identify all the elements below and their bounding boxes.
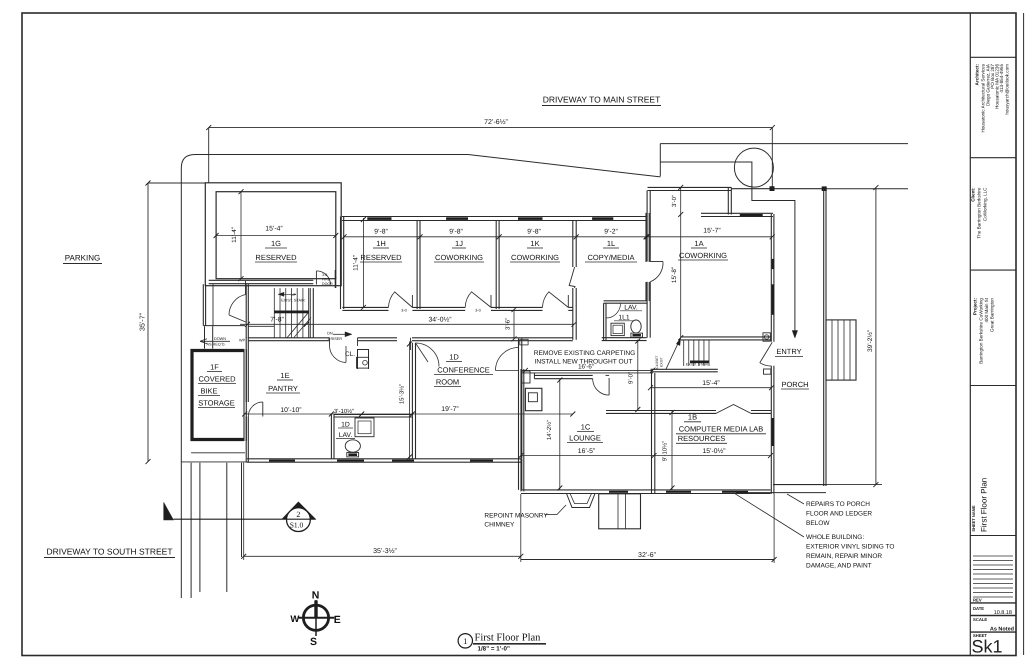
dimension 72ft-6half top <box>209 127 773 129</box>
dim 15ft-4 hall to porch <box>651 387 772 389</box>
svg-text:COVERED: COVERED <box>198 375 236 384</box>
windows in east wall <box>772 259 774 269</box>
svg-text:PORCH: PORCH <box>781 380 808 389</box>
svg-text:39’-2½”: 39’-2½” <box>867 330 874 352</box>
svg-text:CL.: CL. <box>345 351 355 358</box>
door 1H <box>411 295 413 307</box>
electrical panel 1A <box>763 333 770 341</box>
stair2 rail <box>666 338 681 369</box>
dim 7ft-8 and 34ft-0half hall <box>240 323 574 325</box>
svg-text:15’-7”: 15’-7” <box>703 228 721 235</box>
porch north edge <box>731 188 826 190</box>
svg-text:N: N <box>312 589 320 601</box>
svg-text:DOOR: DOOR <box>322 282 333 286</box>
svg-text:1/8” = 1’-0”: 1/8” = 1’-0” <box>478 646 511 653</box>
svg-text:FIRE: FIRE <box>322 278 331 282</box>
closet door swing <box>330 346 347 363</box>
svg-text:COWORKING: COWORKING <box>679 251 727 260</box>
svg-text:PANTRY: PANTRY <box>268 384 298 393</box>
1G south wall <box>209 279 314 281</box>
svg-text:CoWorking, LLC: CoWorking, LLC <box>983 187 988 221</box>
main south wall with windows <box>521 489 771 491</box>
stair up arrow and text <box>278 293 296 295</box>
svg-text:DRIVEWAY TO SOUTH STREET: DRIVEWAY TO SOUTH STREET <box>46 547 172 557</box>
porch top extension line east <box>826 188 908 190</box>
lav toilet <box>631 320 641 333</box>
1D east door <box>496 348 519 371</box>
north site line at top of turnaround <box>660 143 908 145</box>
svg-text:EXIST. STAIR: EXIST. STAIR <box>686 362 709 366</box>
svg-text:First Floor Plan: First Floor Plan <box>475 633 542 644</box>
svg-text:E: E <box>334 614 341 626</box>
dim 9ft-0 <box>637 340 639 411</box>
svg-text:413-854-4955: 413-854-4955 <box>999 64 1004 93</box>
svg-text:1G: 1G <box>271 239 281 248</box>
corridor south wall <box>249 337 330 339</box>
svg-text:WHOLE BUILDING:: WHOLE BUILDING: <box>806 534 864 541</box>
wall 1L-1A <box>645 213 647 262</box>
windows in suites north wall <box>367 217 391 220</box>
svg-text:32’-6”: 32’-6” <box>638 552 657 559</box>
svg-text:1K: 1K <box>530 239 539 248</box>
stair rail diagonals <box>287 313 309 339</box>
dim 15ft-3half <box>408 342 410 460</box>
pantry west wall <box>245 338 247 403</box>
svg-text:16’-6”: 16’-6” <box>578 364 594 371</box>
dim 32ft-6 <box>521 559 774 561</box>
room 1G outer wall <box>205 183 341 286</box>
wall 1G-1H <box>340 217 342 310</box>
fire door at 1G south-east <box>315 271 317 285</box>
svg-text:1 RISER: 1 RISER <box>327 337 342 341</box>
svg-text:DRIVEWAY TO MAIN STREET: DRIVEWAY TO MAIN STREET <box>543 95 661 105</box>
svg-text:housyarch@outlook.com: housyarch@outlook.com <box>1005 64 1010 115</box>
svg-text:3-0: 3-0 <box>401 308 407 312</box>
svg-text:EXIST: EXIST <box>660 357 664 367</box>
svg-text:1D: 1D <box>449 353 459 362</box>
svg-text:1L: 1L <box>607 239 615 248</box>
west porch left of stair <box>202 284 204 325</box>
svg-text:11’-4”: 11’-4” <box>353 255 360 271</box>
hall south wall / dim 16-6 <box>521 369 653 371</box>
svg-text:Great Barrington: Great Barrington <box>990 298 995 332</box>
dim 9ft-10half <box>671 411 673 490</box>
dim 15ft-7 <box>647 236 772 238</box>
svg-text:REPOINT MASONRY: REPOINT MASONRY <box>484 513 548 520</box>
corridor doors <box>410 338 412 350</box>
building east wall <box>770 214 772 342</box>
svg-text:First Floor Plan: First Floor Plan <box>980 478 989 532</box>
wall between 1G block and stair: west jog <box>335 277 337 288</box>
svg-text:COPY/MEDIA: COPY/MEDIA <box>587 253 634 262</box>
1A door swing <box>650 261 663 263</box>
svg-text:DN: DN <box>327 332 333 336</box>
1A south wall <box>681 336 772 338</box>
main stair treads <box>273 288 275 338</box>
porch south edge <box>773 484 826 486</box>
svg-text:REMOVE EXISTING CARPETING: REMOVE EXISTING CARPETING <box>534 350 636 357</box>
svg-text:The Barrington Berkshire: The Barrington Berkshire <box>977 187 982 239</box>
dimension 11ft-4 in 1G <box>240 192 242 279</box>
svg-text:72’-6½”: 72’-6½” <box>484 119 508 126</box>
room 1G inner wall <box>216 192 336 279</box>
svg-text:3-0: 3-0 <box>475 308 481 312</box>
1D lav sink <box>355 418 374 437</box>
svg-text:1C: 1C <box>581 423 591 432</box>
suites north wall <box>342 216 647 218</box>
west driveway strip lines <box>190 463 192 598</box>
1D lav toilet <box>345 440 360 452</box>
svg-text:16’-5”: 16’-5” <box>578 448 596 455</box>
svg-text:ENTRY: ENTRY <box>776 347 801 356</box>
chimney bay south <box>567 494 596 508</box>
svg-text:CONFERENCE: CONFERENCE <box>437 366 490 375</box>
wall 1E-1D <box>411 343 413 459</box>
svg-text:SCALE: SCALE <box>973 617 987 622</box>
svg-text:COMPUTER MEDIA LAB: COMPUTER MEDIA LAB <box>679 425 764 434</box>
1A north wall with window <box>701 212 773 214</box>
svg-text:34’-0½”: 34’-0½” <box>428 316 452 323</box>
svg-text:9’-2”: 9’-2” <box>604 229 618 236</box>
ramp rails <box>204 326 206 348</box>
svg-text:Sk1: Sk1 <box>972 637 1003 657</box>
stair2 treads near entry <box>683 340 685 366</box>
door 1J <box>490 295 492 307</box>
svg-text:1D: 1D <box>341 422 350 429</box>
north arrow compass <box>299 600 335 636</box>
small door panel right of hall wall <box>520 339 528 345</box>
svg-text:ROOM: ROOM <box>436 378 459 387</box>
dimension 39ft-2half right <box>875 188 877 485</box>
svg-text:2: 2 <box>296 510 300 519</box>
1A alcove east wall <box>727 187 729 214</box>
svg-text:Client:: Client: <box>971 187 976 202</box>
svg-text:RESOURCES: RESOURCES <box>678 434 726 443</box>
svg-text:14’-2½”: 14’-2½” <box>546 420 553 440</box>
svg-text:REMAIN, REPAIR MINOR: REMAIN, REPAIR MINOR <box>806 553 882 560</box>
wall 1J-1K <box>495 221 497 310</box>
svg-text:BIKE: BIKE <box>200 387 217 396</box>
1C west wall <box>520 369 522 491</box>
steps below 1F <box>191 452 245 454</box>
wall 1D-1C <box>518 339 520 459</box>
svg-text:LAV.: LAV. <box>339 432 353 439</box>
1A west wall with door <box>646 191 648 262</box>
wall under stair2 <box>651 368 718 370</box>
svg-text:Barrington Berkshire CoWorki: Barrington Berkshire CoWorking <box>979 298 984 364</box>
lav sink <box>611 323 624 335</box>
dim 35ft-3half <box>244 555 521 557</box>
svg-text:SHEET NAME: SHEET NAME <box>971 505 976 532</box>
svg-text:CLOSET: CLOSET <box>655 355 659 368</box>
svg-text:EXTERIOR VINYL SIDING TO: EXTERIOR VINYL SIDING TO <box>806 544 894 551</box>
svg-text:3’-0”: 3’-0” <box>671 195 678 207</box>
property line west + north with rounded corner <box>181 155 660 599</box>
ramp down-as-reqd <box>200 340 230 342</box>
svg-text:EXIST. STAIR: EXIST. STAIR <box>281 299 305 303</box>
chimney shaft box <box>525 388 542 410</box>
south stoop <box>599 494 641 529</box>
svg-text:Architect:: Architect: <box>975 64 980 86</box>
lav 1L1 walls <box>604 300 648 302</box>
dim 3ft-6 at hall right <box>513 310 515 339</box>
svg-text:1F: 1F <box>210 363 219 372</box>
lav 1D partition <box>330 415 332 459</box>
1D door top-left <box>416 343 440 367</box>
dimension 15ft-4 in 1G <box>216 235 336 237</box>
entry path with arrow <box>660 162 795 333</box>
1C north wall and door <box>534 374 592 376</box>
svg-text:9’-8”: 9’-8” <box>527 229 541 236</box>
svg-text:DOWN: DOWN <box>214 337 226 341</box>
stair west wall <box>245 284 247 338</box>
mid chain dim 16-5 15-0half <box>521 455 771 457</box>
svg-text:CHIMNEY: CHIMNEY <box>484 522 515 529</box>
1A alcove north wall <box>648 186 732 188</box>
svg-text:W: W <box>290 614 299 625</box>
svg-text:3’-6”: 3’-6” <box>505 318 512 330</box>
svg-text:35’-3½”: 35’-3½” <box>373 548 397 555</box>
entry door in east wall <box>760 342 772 362</box>
dim 11ft-4 for 1H <box>362 218 364 307</box>
svg-text:19’-7”: 19’-7” <box>441 406 459 413</box>
door 1K <box>567 295 569 307</box>
wall east of fire door <box>334 270 336 288</box>
west entry door swing <box>245 281 247 295</box>
svg-text:REV: REV <box>973 598 982 603</box>
svg-text:STORAGE: STORAGE <box>198 399 235 408</box>
pantry block south wall with windows <box>247 458 521 460</box>
1F covered bike storage (new walls) <box>192 351 244 440</box>
driveway turnaround circle <box>734 148 773 187</box>
section marker 2/S1.0 <box>282 502 316 519</box>
svg-text:AS REQ’D.: AS REQ’D. <box>207 343 226 347</box>
svg-text:RESERVED: RESERVED <box>255 253 297 262</box>
svg-text:PARKING: PARKING <box>65 254 100 263</box>
bottom chain dims 10-10 3-10 19-7 <box>245 413 573 415</box>
svg-text:400 Main St: 400 Main St <box>984 297 989 322</box>
svg-text:15’-4”: 15’-4” <box>702 380 720 387</box>
dimension 35ft-7 left <box>147 183 149 462</box>
svg-text:1: 1 <box>463 636 467 646</box>
stair landing edge <box>249 325 275 327</box>
svg-text:3-0: 3-0 <box>322 273 327 277</box>
svg-text:1A: 1A <box>694 239 703 248</box>
svg-text:LAV.: LAV. <box>624 304 638 311</box>
svg-text:9’-8”: 9’-8” <box>449 229 463 236</box>
svg-text:7’-8”: 7’-8” <box>270 316 284 323</box>
dim 3ft-0 and 15ft-8 <box>680 187 682 337</box>
porch steps east <box>826 320 856 380</box>
porch east wall <box>823 189 825 486</box>
wall 1H-1J <box>416 221 418 310</box>
svg-text:15’-8”: 15’-8” <box>671 267 678 283</box>
1B north wall with bifold <box>606 410 716 412</box>
svg-text:RESERVED: RESERVED <box>360 253 402 262</box>
pantry west door <box>248 402 262 417</box>
svg-text:9’-8”: 9’-8” <box>374 229 388 236</box>
svg-text:15’-0½”: 15’-0½” <box>702 448 726 455</box>
svg-text:DATE: DATE <box>973 606 984 611</box>
svg-text:S: S <box>310 636 317 648</box>
svg-text:11’-4”: 11’-4” <box>231 227 238 243</box>
svg-text:DAMAGE, AND PAINT: DAMAGE, AND PAINT <box>806 563 872 570</box>
svg-text:15’-4”: 15’-4” <box>265 226 283 233</box>
svg-text:S1.0: S1.0 <box>290 521 304 530</box>
svg-text:REPAIRS TO PORCH: REPAIRS TO PORCH <box>806 501 870 508</box>
svg-text:9’-0”: 9’-0” <box>628 372 635 384</box>
dim 14ft-2half <box>559 379 561 490</box>
svg-text:COWORKING: COWORKING <box>511 253 559 262</box>
svg-text:COWORKING: COWORKING <box>435 253 483 262</box>
svg-text:1B: 1B <box>688 413 697 422</box>
svg-text:9’-10½”: 9’-10½” <box>662 441 669 461</box>
svg-text:15’-3½”: 15’-3½” <box>399 384 406 404</box>
suites south wall with door openings <box>342 306 388 308</box>
svg-text:UP: UP <box>291 293 297 297</box>
svg-text:1H: 1H <box>376 239 386 248</box>
svg-text:Project:: Project: <box>973 298 978 316</box>
wall 1K-1L with break <box>572 221 574 268</box>
stair east wall <box>309 288 311 338</box>
svg-text:WP: WP <box>239 339 246 343</box>
svg-text:BELOW: BELOW <box>806 520 830 527</box>
wall 1C-1B <box>651 373 653 494</box>
svg-text:LOUNGE: LOUNGE <box>569 434 601 443</box>
drawing title First Floor Plan <box>458 634 472 648</box>
svg-text:35’-7”: 35’-7” <box>140 312 147 331</box>
svg-text:1J: 1J <box>455 239 463 248</box>
svg-text:10’-10”: 10’-10” <box>280 407 302 414</box>
lav 1L1 door <box>605 303 607 318</box>
title block right strip <box>969 13 971 656</box>
svg-text:1E: 1E <box>280 371 289 380</box>
svg-text:FLOOR AND LEDGER: FLOOR AND LEDGER <box>806 511 872 518</box>
